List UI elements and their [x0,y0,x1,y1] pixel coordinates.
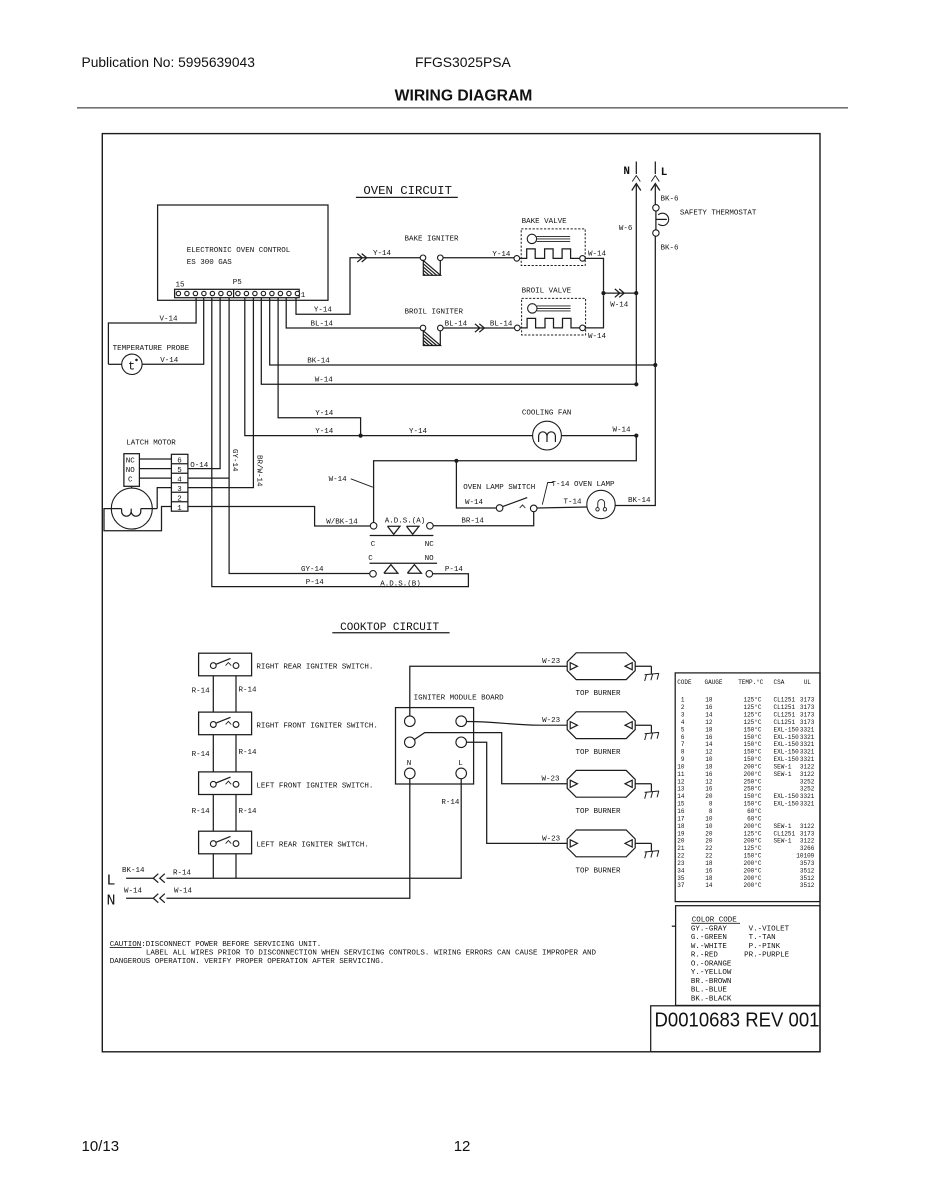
svg-text:Y-14: Y-14 [492,251,511,259]
svg-text:G.-GREEN: G.-GREEN [691,934,727,942]
svg-text:BAKE IGNITER: BAKE IGNITER [405,236,460,244]
wire W-23 board to top burner 4 [467,742,568,843]
svg-text:200°C: 200°C [743,838,761,845]
svg-text:12: 12 [705,749,713,756]
wire R-14 chain right contacts [236,676,257,878]
svg-text:N: N [107,893,116,910]
wire stub at color code box [672,925,676,927]
wire W-23 board to top burner 2 [467,717,567,725]
svg-text:3321: 3321 [800,734,815,741]
ground burner 4 [645,843,659,858]
svg-text:5: 5 [177,467,182,475]
junction feeder split [454,459,458,463]
wire W-14 broil valve to junction [585,295,606,341]
svg-text:Y-14: Y-14 [373,250,392,258]
svg-text:13: 13 [677,786,685,793]
svg-text:TOP BURNER: TOP BURNER [576,690,622,698]
part number box D0010683 REV 001 [651,1006,820,1052]
wire burner 3 to ground [635,783,651,785]
svg-text:16: 16 [677,808,685,815]
svg-text:TOP BURNER: TOP BURNER [576,808,622,816]
svg-text:150°C: 150°C [743,756,761,763]
svg-text:NO: NO [425,555,435,563]
svg-text:3252: 3252 [800,786,815,793]
wire BR/W-14 EOC pin6 to latch pin3 [188,298,263,488]
wire V-14 probe to EOC pin 12 [108,298,203,366]
svg-text:17: 17 [677,815,685,822]
svg-text:14: 14 [677,793,685,800]
svg-text:R-14: R-14 [239,749,258,757]
svg-text:LABEL ALL WIRES PRIOR TO DISCO: LABEL ALL WIRES PRIOR TO DISCONNECTION W… [146,950,597,958]
svg-text:W.-WHITE: W.-WHITE [691,943,728,951]
top burner 4 [567,830,635,875]
svg-text:3321: 3321 [800,756,815,763]
svg-text:D0010683 REV 001: D0010683 REV 001 [655,1009,820,1032]
wire W-14 cooling fan to N line [561,427,636,436]
wire W-14 junction to N line [604,289,637,310]
svg-text:EXL-150: EXL-150 [774,734,800,741]
svg-text:12: 12 [705,778,713,785]
svg-text:11: 11 [677,771,685,778]
svg-text:200°C: 200°C [743,771,761,778]
igniter switch S5 left front igniter switch [199,772,374,795]
latch motor M1 [111,486,157,529]
color code legend [676,906,820,1006]
svg-text:GY-14: GY-14 [230,449,238,472]
svg-text:150°C: 150°C [743,801,761,808]
svg-text:150°C: 150°C [743,726,761,733]
svg-text:3252: 3252 [800,778,815,785]
junction W-14 on N [634,382,638,386]
wire W/BK-14 latch pin1 to ADS A common [188,507,370,527]
svg-text:3173: 3173 [800,719,815,726]
svg-text:W-14: W-14 [588,251,607,259]
wire motor right to pin3 [157,488,171,509]
wire BL-14 EOC pin2 to broil igniter [286,298,420,329]
wire W-14 N rail [167,779,410,899]
wire Y-14 bake igniter to bake valve [443,251,514,259]
svg-text:CODE: CODE [677,679,692,686]
wire BR-14 ADS A to lamp switch [433,512,534,526]
svg-text:16: 16 [705,704,713,711]
svg-text:125°C: 125°C [743,719,761,726]
svg-text:R-14: R-14 [173,869,192,877]
svg-text:Y-14: Y-14 [314,307,333,315]
top burner 1 [567,653,635,698]
bake igniter E1 [405,236,460,276]
svg-text:LATCH MOTOR: LATCH MOTOR [126,439,176,447]
broil valve [515,288,586,336]
wire Y-14 EOC pin7 to cooling fan [245,298,533,436]
svg-text:R.-RED: R.-RED [691,952,719,960]
svg-text:125°C: 125°C [743,712,761,719]
wire O-14 EOC pin10 to latch pin5 [188,298,220,470]
wire T-14 switch to oven lamp [537,499,587,508]
svg-text:W-14: W-14 [329,476,348,484]
latch motor label [126,439,176,447]
svg-text:37: 37 [677,882,685,889]
svg-text:10: 10 [677,763,685,770]
svg-text:125°C: 125°C [743,845,761,852]
svg-text:16: 16 [705,786,713,793]
header: model number [415,54,511,70]
svg-text:R-14: R-14 [192,687,211,695]
svg-text:CL1251: CL1251 [774,712,796,719]
svg-text:BR.-BROWN: BR.-BROWN [691,978,732,986]
svg-text:ES 300 GAS: ES 300 GAS [187,259,233,267]
electronic oven control U1 [158,205,328,300]
svg-text:A.D.S.(B): A.D.S.(B) [380,580,421,588]
svg-text:LEFT FRONT IGNITER SWITCH.: LEFT FRONT IGNITER SWITCH. [256,782,373,790]
wire Y-14 EOC pin3 jog [278,298,361,436]
svg-text:3512: 3512 [800,882,815,889]
svg-text:35: 35 [677,875,685,882]
svg-text:R-14: R-14 [192,808,211,816]
svg-text:OVEN CIRCUIT: OVEN CIRCUIT [363,184,452,198]
svg-text:N: N [407,760,412,768]
svg-text:BK-14: BK-14 [307,357,330,365]
svg-text:6: 6 [681,734,685,741]
svg-text:P-14: P-14 [306,579,325,587]
svg-text:P-14: P-14 [445,566,464,574]
cooktop L terminal [107,867,165,890]
svg-text:14: 14 [705,882,713,889]
wire BK-6 thermostat down L line [655,236,679,505]
wire W-23 board to top burner 3 [414,733,567,784]
svg-text:W/BK-14: W/BK-14 [326,519,358,527]
wire W-14 EOC pin5 to N line [261,298,636,385]
wire NO to pin5 [139,468,171,470]
wire BL-14 broil igniter to broil valve [443,320,514,332]
wire P-14 EOC pin11 return [212,298,469,588]
svg-text:BR/W-14: BR/W-14 [255,455,263,487]
svg-text:3122: 3122 [800,838,815,845]
title WIRING DIAGRAM [395,88,533,105]
svg-text:22: 22 [705,853,713,860]
svg-text:3122: 3122 [800,823,815,830]
wire C to pin4 [139,477,171,479]
svg-text:3173: 3173 [800,712,815,719]
svg-text:2: 2 [177,495,182,503]
svg-text:Y.-YELLOW: Y.-YELLOW [691,969,732,977]
footer date [82,1138,120,1155]
svg-text:SEW-1: SEW-1 [774,823,792,830]
svg-text:18: 18 [705,697,713,704]
svg-text:WIRING DIAGRAM: WIRING DIAGRAM [395,88,533,105]
safety thermostat S1 [653,205,757,237]
svg-text:DANGEROUS OPERATION. VERIFY PR: DANGEROUS OPERATION. VERIFY PROPER OPERA… [110,958,385,966]
junction on N line [634,291,638,295]
svg-text:18: 18 [677,823,685,830]
svg-text:8: 8 [709,808,713,815]
svg-text:16: 16 [705,867,713,874]
wire R-14 chain left contacts [192,676,214,878]
ADS B switch [368,555,437,588]
svg-text:23: 23 [677,860,685,867]
svg-text:TEMPERATURE PROBE: TEMPERATURE PROBE [113,345,190,353]
svg-text:CL1251: CL1251 [774,697,796,704]
svg-text:3512: 3512 [800,867,815,874]
wire burner 4 to ground [635,842,651,844]
svg-text:EXL-150: EXL-150 [774,793,800,800]
svg-text:T-14: T-14 [564,499,583,507]
svg-text:R-14: R-14 [441,799,460,807]
svg-text:21: 21 [677,845,685,852]
wire W-6 N line [619,185,636,384]
svg-text:BK-14: BK-14 [628,497,651,505]
svg-text:Publication No: 5995639043: Publication No: 5995639043 [82,55,256,70]
svg-text:Y-14: Y-14 [315,428,334,436]
svg-text:2: 2 [681,704,685,711]
svg-text:BAKE VALVE: BAKE VALVE [522,218,568,226]
svg-text:150°C: 150°C [743,741,761,748]
svg-text:20: 20 [705,830,713,837]
igniter switch S6 left rear igniter switch [199,831,369,854]
oven lamp switch S2 [463,484,537,512]
svg-text:EXL-150: EXL-150 [774,801,800,808]
svg-text:TOP BURNER: TOP BURNER [576,867,622,875]
junction Y-14 lines [359,434,363,438]
svg-text:W-14: W-14 [588,333,607,341]
svg-text:W-14: W-14 [315,377,334,385]
diagram outer frame [102,134,820,1052]
svg-text:EXL-150: EXL-150 [774,726,800,733]
svg-text:IGNITER MODULE BOARD: IGNITER MODULE BOARD [414,694,505,702]
wire burner 1 to ground [635,665,651,667]
svg-text:10109: 10109 [796,853,814,860]
svg-text:A.D.S.(A): A.D.S.(A) [385,518,426,526]
svg-text:3: 3 [177,486,182,494]
svg-text:PR.-PURPLE: PR.-PURPLE [744,952,790,960]
svg-text:19: 19 [677,830,685,837]
svg-text:FFGS3025PSA: FFGS3025PSA [415,54,511,70]
svg-text:W-23: W-23 [542,776,561,784]
svg-text:14: 14 [705,741,713,748]
svg-text:P5: P5 [233,279,243,287]
label pointer T-14 oven lamp [542,481,615,505]
svg-text:C: C [128,476,133,484]
svg-text:GY.-GRAY: GY.-GRAY [691,925,728,933]
svg-text:NC: NC [126,457,136,465]
svg-text:L: L [107,873,116,890]
svg-text:4: 4 [681,719,685,726]
svg-text:3512: 3512 [800,875,815,882]
svg-text:3573: 3573 [800,860,815,867]
svg-text:1: 1 [681,697,685,704]
wire R-14 L rail [167,779,462,879]
section title COOKTOP CIRCUIT [332,622,449,634]
svg-text:22: 22 [705,845,713,852]
svg-text:BROIL VALVE: BROIL VALVE [522,288,572,296]
broil igniter E2 [405,309,464,346]
svg-text:OVEN LAMP SWITCH: OVEN LAMP SWITCH [463,484,535,492]
svg-text:W-23: W-23 [542,717,561,725]
svg-text:COOLING FAN: COOLING FAN [522,410,572,418]
svg-text:R-14: R-14 [192,751,211,759]
svg-text:W-14: W-14 [610,302,629,310]
svg-text:W-14: W-14 [124,888,143,896]
svg-text:15: 15 [677,801,685,808]
svg-text:C: C [368,555,373,563]
wire burner 2 to ground [635,724,651,726]
svg-text:V-14: V-14 [160,315,179,323]
wire specification table [675,673,820,902]
junction BK-14 on L [653,363,657,367]
svg-text:EXL-150: EXL-150 [774,741,800,748]
svg-text:TEMP.°C: TEMP.°C [738,679,764,686]
svg-text:22: 22 [677,853,685,860]
svg-text:10/13: 10/13 [82,1138,120,1155]
svg-text:UL: UL [804,679,812,686]
svg-text:125°C: 125°C [743,697,761,704]
svg-text:EXL-150: EXL-150 [774,749,800,756]
svg-text:SEW-1: SEW-1 [774,763,792,770]
caution note [110,941,597,966]
footer page number [454,1138,471,1155]
wire N line to lamp-switch feeder [329,436,637,523]
svg-text:C: C [371,541,376,549]
svg-text:18: 18 [705,763,713,770]
svg-text:W-14: W-14 [465,499,484,507]
svg-text:10: 10 [705,815,713,822]
junction W-14 valves [601,291,605,295]
wire Y-14 EOC pin1 to bake igniter [296,250,420,315]
svg-text:200°C: 200°C [743,763,761,770]
svg-text:O.-ORANGE: O.-ORANGE [691,960,732,968]
top burner 3 [567,770,635,815]
svg-text:18: 18 [705,860,713,867]
temperature probe B1 [113,345,190,375]
svg-text:20: 20 [677,838,685,845]
wire W-14 bake valve to junction [585,251,606,291]
wire BK-14 EOC pin4 to L line [270,298,656,366]
svg-text:NC: NC [425,541,435,549]
svg-text:TOP BURNER: TOP BURNER [576,749,622,757]
svg-text:SEW-1: SEW-1 [774,771,792,778]
svg-text:1: 1 [177,505,182,513]
wire W-14 to oven lamp switch [456,461,496,508]
svg-text:125°C: 125°C [743,830,761,837]
svg-text:R-14: R-14 [239,808,258,816]
ADS A switch [370,518,435,549]
wire BK-6 L to safety thermostat [655,185,679,205]
svg-text:10: 10 [705,823,713,830]
svg-text:200°C: 200°C [743,875,761,882]
svg-text:T.-TAN: T.-TAN [744,934,776,942]
svg-text:200°C: 200°C [743,860,761,867]
svg-text:N: N [623,166,630,178]
wire R-14 board label [441,799,460,807]
svg-text:6: 6 [177,458,182,466]
svg-text:12: 12 [705,719,713,726]
svg-text:BR-14: BR-14 [461,518,484,526]
svg-text:W-23: W-23 [542,658,561,666]
svg-text:8: 8 [709,801,713,808]
svg-text:CL1251: CL1251 [774,704,796,711]
svg-text:3321: 3321 [800,793,815,800]
svg-text:BK-6: BK-6 [661,245,680,253]
supply N terminal [623,162,640,191]
svg-text:BK.-BLACK: BK.-BLACK [691,995,732,1003]
svg-text:W-23: W-23 [542,835,561,843]
svg-text:150°C: 150°C [743,793,761,800]
svg-text:15: 15 [176,282,186,290]
svg-text:16: 16 [705,734,713,741]
svg-text:3: 3 [681,712,685,719]
svg-text:150°C: 150°C [743,734,761,741]
svg-text:4: 4 [177,476,182,484]
svg-text:BL.-BLUE: BL.-BLUE [691,987,728,995]
svg-text:BK-14: BK-14 [122,867,145,875]
header: publication number [82,55,256,70]
ground burner 3 [645,784,659,799]
svg-text:ELECTRONIC OVEN CONTROL: ELECTRONIC OVEN CONTROL [187,247,291,255]
svg-text:GY-14: GY-14 [301,566,324,574]
svg-text:W-14: W-14 [174,888,193,896]
svg-text:3266: 3266 [800,845,815,852]
svg-text:200°C: 200°C [743,882,761,889]
svg-text:1: 1 [301,292,306,300]
svg-text:10: 10 [705,756,713,763]
svg-text:200°C: 200°C [743,867,761,874]
cooling fan M2 [522,410,572,451]
svg-text:RIGHT FRONT IGNITER SWITCH.: RIGHT FRONT IGNITER SWITCH. [256,723,378,731]
supply L terminal [651,162,668,191]
top burner 2 [567,712,635,757]
svg-text:L: L [661,167,668,179]
svg-text:EXL-150: EXL-150 [774,756,800,763]
svg-text:W-6: W-6 [619,225,633,233]
svg-text:14: 14 [705,712,713,719]
svg-text:60°C: 60°C [747,808,762,815]
svg-text:60°C: 60°C [747,815,762,822]
svg-text:V-14: V-14 [160,357,179,365]
svg-text:12: 12 [454,1138,471,1155]
svg-text:3122: 3122 [800,771,815,778]
svg-text:CL1251: CL1251 [774,830,796,837]
igniter switch S3 right rear igniter switch [199,653,374,676]
svg-text:250°C: 250°C [743,786,761,793]
svg-text:5: 5 [681,726,685,733]
svg-text:3321: 3321 [800,749,815,756]
wire BK-14 lamp to L line [615,497,656,505]
svg-text:W-14: W-14 [613,427,632,435]
wire motor left loop to pin1 [104,507,171,531]
svg-text:R-14: R-14 [239,686,258,694]
svg-text:3122: 3122 [800,763,815,770]
wire W-23 board to top burner 1 [410,658,567,716]
svg-text:8: 8 [681,749,685,756]
svg-text:P.-PINK: P.-PINK [744,943,781,951]
svg-text:SEW-1: SEW-1 [774,838,792,845]
svg-text:12: 12 [677,778,685,785]
svg-text:RIGHT REAR IGNITER SWITCH.: RIGHT REAR IGNITER SWITCH. [256,664,373,672]
svg-text:BL-14: BL-14 [445,320,468,328]
svg-text:O-14: O-14 [190,462,209,470]
junction fan wire on N [634,434,638,438]
svg-text:20: 20 [705,793,713,800]
svg-text:Y-14: Y-14 [409,428,428,436]
svg-text:LEFT REAR IGNITER SWITCH.: LEFT REAR IGNITER SWITCH. [256,842,369,850]
svg-text:Y-14: Y-14 [315,410,334,418]
svg-text:18: 18 [705,875,713,882]
svg-text:GAUGE: GAUGE [705,679,723,686]
svg-text:BK-6: BK-6 [661,195,680,203]
bake valve [514,218,585,266]
svg-text:BL-14: BL-14 [490,320,513,328]
svg-text:SAFETY THERMOSTAT: SAFETY THERMOSTAT [680,210,757,218]
wire V-14 to temperature probe top [108,298,196,365]
